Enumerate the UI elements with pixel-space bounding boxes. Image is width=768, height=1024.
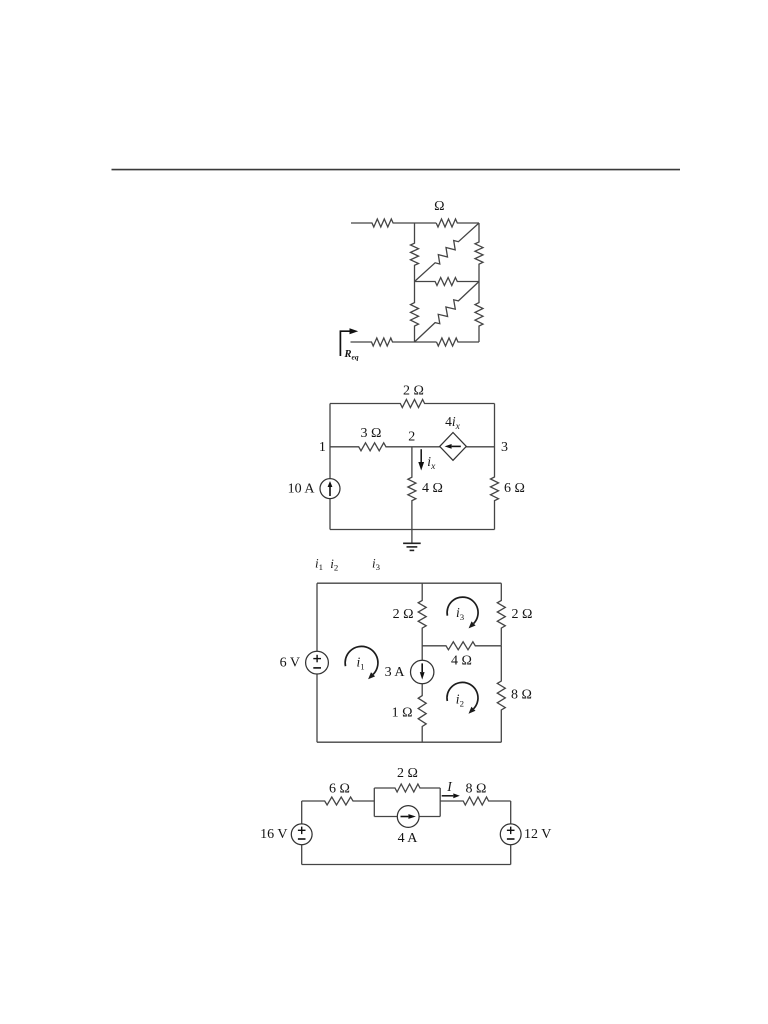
- svg-text:12 V: 12 V: [524, 827, 551, 842]
- label 1ohm: [392, 705, 413, 720]
- arrow ix: [418, 449, 424, 470]
- svg-text:8 Ω: 8 Ω: [511, 688, 532, 703]
- svg-text:4ix: 4ix: [445, 414, 461, 432]
- svg-text:3 Ω: 3 Ω: [361, 426, 382, 441]
- wire right vertical c4: [510, 801, 512, 865]
- wire left vertical c3: [316, 583, 318, 742]
- wire top c3: [317, 582, 501, 584]
- label ohm: [434, 199, 444, 214]
- wire bottom c3: [317, 741, 501, 743]
- svg-text:8 Ω: 8 Ω: [466, 781, 487, 796]
- wire main right with 8ohm: [440, 797, 511, 805]
- wire left vertical c4: [301, 801, 303, 865]
- resistor 4ohm node2 vertical: [408, 447, 416, 530]
- label 4ix: [445, 414, 461, 432]
- svg-text:4 Ω: 4 Ω: [451, 654, 472, 669]
- resistor diagonal upper: [415, 223, 480, 282]
- svg-text:16 V: 16 V: [260, 827, 287, 842]
- current source 10A: [320, 479, 340, 499]
- wire bottom: [330, 529, 495, 531]
- wire middle with 3ohm: [330, 443, 495, 451]
- ground: [403, 530, 421, 551]
- current source 4A: [397, 806, 419, 828]
- resistor 2ohm middle vertical: [418, 583, 426, 660]
- label 6ohm c4: [329, 781, 350, 796]
- svg-text:6 Ω: 6 Ω: [329, 781, 350, 796]
- label 8ohm c4: [466, 781, 487, 796]
- svg-text:I: I: [446, 779, 453, 794]
- resistor diagonal lower: [415, 282, 480, 343]
- svg-text:4 Ω: 4 Ω: [422, 481, 443, 496]
- svg-text:Req: Req: [344, 349, 359, 361]
- svg-text:4 A: 4 A: [398, 831, 419, 846]
- svg-text:2 Ω: 2 Ω: [393, 607, 414, 622]
- svg-text:i2: i2: [330, 556, 338, 573]
- svg-text:i3: i3: [456, 605, 465, 622]
- svg-text:Ω: Ω: [434, 199, 444, 214]
- label 6ohm c2: [504, 481, 525, 496]
- resistor 2ohm right + 8ohm right vertical: [497, 583, 505, 742]
- label node2: [408, 429, 415, 444]
- Req arrow: [340, 328, 358, 356]
- label I: [446, 779, 453, 794]
- horizontal rule: [112, 169, 681, 171]
- wire 4ohm horizontal: [422, 642, 501, 650]
- svg-text:i2: i2: [456, 692, 464, 709]
- resistor left vertical upper + wire: [411, 223, 419, 282]
- label 2ohm c4: [397, 766, 418, 781]
- label 2ohm c2: [403, 383, 424, 398]
- resistor left vertical lower + wire: [411, 282, 419, 343]
- label node3: [501, 440, 508, 455]
- voltage source 12V: [500, 824, 521, 845]
- wire left vertical: [329, 404, 331, 530]
- label Req: [344, 349, 359, 361]
- svg-text:3 A: 3 A: [385, 665, 406, 680]
- wire top 2ohm branch: [330, 400, 495, 408]
- labels i1 i2 i3: [315, 555, 381, 572]
- svg-text:1: 1: [319, 440, 326, 455]
- svg-text:2 Ω: 2 Ω: [512, 607, 533, 622]
- wire top with resistors: [351, 219, 479, 227]
- label 4ohm c2: [422, 481, 443, 496]
- label 3ohm c2: [361, 426, 382, 441]
- mesh arrow i1: [345, 646, 378, 679]
- svg-text:3: 3: [501, 440, 508, 455]
- label ix: [427, 454, 436, 472]
- resistor right vertical upper + wire: [475, 223, 483, 282]
- label 12V: [524, 827, 551, 842]
- voltage source 16V: [291, 824, 312, 845]
- resistor 6ohm right vertical: [491, 404, 499, 530]
- label 2ohm right: [512, 607, 533, 622]
- svg-text:6 Ω: 6 Ω: [504, 481, 525, 496]
- current source 3A: [411, 660, 434, 683]
- svg-text:i1: i1: [315, 555, 323, 572]
- svg-text:1 Ω: 1 Ω: [392, 705, 413, 720]
- dependent source 4ix diamond: [440, 433, 467, 461]
- svg-text:2 Ω: 2 Ω: [403, 383, 424, 398]
- svg-text:6 V: 6 V: [280, 656, 300, 671]
- wire middle with resistor: [415, 278, 480, 286]
- wire bottom c4: [302, 864, 511, 866]
- label 16V: [260, 827, 287, 842]
- label 2ohm mid: [393, 607, 414, 622]
- label 10A: [288, 482, 316, 497]
- resistor 1ohm middle vertical: [418, 684, 426, 743]
- label 3A: [385, 665, 406, 680]
- wire main left with 6ohm: [302, 797, 375, 805]
- voltage source 6V: [306, 651, 329, 674]
- mesh arrow i3: [447, 597, 478, 628]
- svg-text:2 Ω: 2 Ω: [397, 766, 418, 781]
- resistor right vertical lower + wire: [475, 282, 483, 343]
- svg-text:i1: i1: [357, 655, 365, 672]
- label 6V: [280, 656, 300, 671]
- mesh arrow i2: [447, 682, 478, 713]
- svg-text:2: 2: [408, 429, 415, 444]
- label 8ohm: [511, 688, 532, 703]
- svg-text:i3: i3: [372, 555, 381, 572]
- label 4A: [398, 831, 419, 846]
- parallel box: [374, 784, 440, 817]
- arrow I: [442, 793, 460, 798]
- label node1: [319, 440, 326, 455]
- label 4ohm c3: [451, 654, 472, 669]
- svg-text:ix: ix: [427, 454, 436, 472]
- svg-text:10 A: 10 A: [288, 482, 316, 497]
- wire bottom with resistors: [351, 338, 480, 346]
